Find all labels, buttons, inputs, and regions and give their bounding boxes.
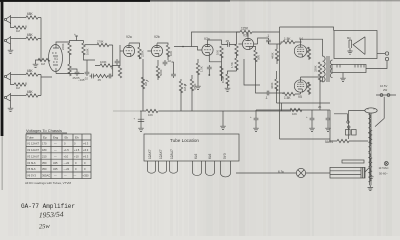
svg-text:+10: +10: [64, 154, 69, 158]
cap C6 .05: [226, 42, 232, 47]
svg-text:210: 210: [42, 154, 47, 158]
resistor R20 470K: [220, 46, 223, 58]
ext speaker jack: [377, 53, 385, 55]
tube V2b: [151, 45, 162, 56]
svg-text:—: —: [64, 175, 67, 178]
svg-text:Esg: Esg: [53, 136, 59, 140]
svg-text:Tube Location: Tube Location: [170, 138, 199, 143]
fuse and switch top: [376, 94, 396, 96]
svg-text:100K: 100K: [86, 48, 90, 55]
svg-text:V5 6L6: V5 6L6: [27, 167, 36, 171]
wire plate to coupling: [84, 53, 96, 70]
ground mid: [222, 111, 224, 124]
socket 6 rectifier: [221, 161, 231, 177]
fuse F1 holder: [346, 130, 351, 136]
resistor R24 8.2K: [226, 74, 229, 86]
svg-text:12AX7: 12AX7: [148, 149, 152, 159]
svg-text:350: 350: [42, 167, 47, 171]
resistor R6 1M: [14, 83, 26, 86]
svg-text:GA-77 Amplifier: GA-77 Amplifier: [21, 203, 75, 210]
svg-text:68K: 68K: [27, 33, 34, 37]
wire J4 to R5: [11, 95, 27, 97]
mains switch SW1: [347, 121, 349, 123]
svg-text:12AX7: 12AX7: [159, 149, 163, 159]
svg-text:V1: V1: [54, 57, 58, 61]
resistor R13 1.5K vertical: [118, 66, 121, 78]
ground under transformer: [368, 185, 374, 190]
tube V3b: [242, 38, 253, 49]
tube location box: [144, 134, 239, 161]
svg-text:Tube: Tube: [27, 136, 34, 140]
resistor R2 68K: [26, 37, 38, 40]
svg-text:1M: 1M: [41, 62, 46, 66]
pilot lamp PL1: [296, 168, 305, 177]
svg-text:345: 345: [53, 161, 58, 165]
svg-text:115K: 115K: [241, 27, 249, 31]
socket 2: [159, 161, 167, 173]
resistor R3 1M: [14, 26, 26, 29]
heater wires: [236, 172, 330, 174]
power transformer T2 heater secondary: [370, 158, 372, 176]
svg-text:68K: 68K: [27, 69, 34, 73]
cathode cap C1 25/25: [75, 70, 80, 76]
node C junction to driver: [172, 47, 192, 73]
svg-text:+1.5: +1.5: [64, 148, 70, 152]
transformer bottom box: [330, 167, 365, 178]
wire C8 to grid bus: [269, 43, 278, 45]
svg-text:440K: 440K: [271, 52, 275, 59]
speaker voice coil: [349, 40, 352, 48]
wire J3 to R4: [11, 74, 27, 76]
svg-text:+6.3: +6.3: [83, 154, 89, 158]
wire jack bus: [11, 23, 27, 28]
bottom box ground: [365, 168, 369, 172]
resistor R22 115K on rail: [240, 30, 252, 33]
svg-text:.02: .02: [167, 59, 171, 63]
svg-text:5AR4: 5AR4: [325, 140, 333, 144]
resistor R26 440K grid top: [275, 49, 278, 61]
svg-text:+6.3: +6.3: [83, 142, 89, 146]
cathode V2a down: [131, 53, 143, 84]
aux line: [279, 102, 281, 104]
svg-text:.05: .05: [225, 39, 229, 43]
power transformer T2 core stem: [370, 113, 371, 186]
resistor R33 10K on bus: [146, 109, 158, 112]
svg-text:.1: .1: [265, 96, 268, 100]
svg-text:—: —: [54, 143, 57, 146]
cap C3 .02: [115, 59, 120, 65]
svg-text:V2a: V2a: [126, 35, 132, 39]
svg-text:8Ω: 8Ω: [347, 36, 351, 40]
svg-text:—22: —22: [64, 161, 70, 165]
resistor R27 440K grid bottom: [275, 79, 278, 91]
svg-text:Eh: Eh: [75, 136, 79, 140]
svg-text:—: —: [74, 175, 77, 178]
tone pot R18 1M-A: [179, 81, 182, 93]
tube V3a: [202, 44, 213, 55]
B+ rail node: [70, 36, 84, 44]
resistor R30 1.5K grid stopper bottom: [283, 92, 295, 95]
filter cap C11: [254, 116, 259, 122]
svg-text:50-60~: 50-60~: [379, 172, 388, 176]
socket 4: [193, 161, 202, 176]
svg-text:1M: 1M: [16, 86, 21, 90]
svg-text:—22: —22: [64, 167, 70, 171]
cathode resistor R10: [56, 53, 70, 74]
svg-text:+1.5: +1.5: [74, 148, 80, 152]
svg-text:V6 5Y3: V6 5Y3: [27, 174, 36, 178]
output transformer T1 core: [327, 56, 329, 82]
screen resistor R29: [307, 47, 310, 59]
svg-text:6.3v: 6.3v: [278, 170, 284, 174]
svg-text:1.5K: 1.5K: [284, 96, 291, 100]
ground under terminal strip: [342, 73, 344, 77]
screen resistor R31: [307, 82, 310, 94]
svg-text:1M: 1M: [144, 81, 148, 86]
coupling cap C8 .1 top: [266, 38, 271, 44]
coupling cap C9 .1 bottom: [265, 91, 271, 96]
wire J2 to R2: [11, 38, 27, 40]
svg-text:10K: 10K: [216, 50, 220, 55]
svg-text:Ep: Ep: [43, 136, 47, 140]
socket 5: [206, 161, 215, 176]
tube V5 6L6: [294, 80, 306, 93]
jack J1: [4, 15, 10, 24]
svg-text:V2 12AX7: V2 12AX7: [27, 148, 40, 152]
svg-text:2K: 2K: [318, 105, 322, 109]
svg-text:.05: .05: [97, 78, 101, 82]
wire J1 to R1: [11, 17, 27, 19]
resistor R20b 470K: [235, 44, 238, 56]
table rows: [27, 142, 89, 178]
svg-text:V3 12AU7: V3 12AU7: [27, 154, 40, 158]
tube V4 6L6: [294, 45, 306, 58]
svg-text:+: +: [74, 33, 76, 37]
cap C4 .02 coupling: [163, 60, 168, 66]
svg-text:365AC: 365AC: [42, 174, 50, 178]
resistor R19 470K: [190, 79, 193, 91]
svg-text:330K: 330K: [314, 65, 318, 72]
svg-text:180: 180: [42, 148, 47, 152]
svg-text:56K: 56K: [257, 55, 261, 60]
table grid: [26, 134, 91, 179]
resistor R5 68K: [26, 94, 38, 97]
svg-text:6L6: 6L6: [208, 153, 212, 159]
svg-text:10K: 10K: [148, 113, 153, 117]
speaker SP cone: [353, 37, 365, 55]
svg-text:—: —: [54, 175, 57, 178]
svg-text:V2b: V2b: [154, 35, 160, 39]
resistor R21b 1.5K: [196, 63, 199, 75]
wire V1 plate top: [56, 42, 69, 45]
svg-text:1.5K: 1.5K: [230, 62, 234, 68]
svg-text:1M-A: 1M-A: [183, 84, 187, 91]
svg-text:+10: +10: [74, 154, 79, 158]
svg-text:—: —: [54, 149, 57, 152]
node B wire to V1 grid lower: [38, 75, 52, 96]
svg-text:1953/54: 1953/54: [39, 210, 64, 220]
svg-text:170: 170: [42, 142, 47, 146]
svg-text:5Y3: 5Y3: [223, 153, 227, 159]
svg-text:270K: 270K: [97, 40, 104, 44]
cathode resistor R23 1.5K: [235, 58, 238, 70]
svg-text:.1: .1: [267, 34, 270, 38]
resistor R1 68K: [26, 16, 38, 19]
svg-text:100K: 100K: [100, 60, 107, 64]
cathode rail + ground: [56, 69, 84, 74]
B+ rail: [280, 110, 331, 139]
filter cap C12: [310, 116, 315, 122]
svg-text:8.2K: 8.2K: [221, 77, 225, 83]
svg-text:-.045: -.045: [78, 78, 85, 82]
svg-text:V1 12AX7: V1 12AX7: [27, 142, 40, 146]
svg-text:V3a: V3a: [204, 37, 210, 41]
resistor R9 1M plate load 2: [82, 43, 85, 55]
jack J4: [4, 93, 10, 102]
ground drop: [138, 111, 144, 126]
mains plug: [384, 162, 388, 166]
feedback resistor R32 330K chain: [318, 62, 321, 74]
svg-text:68K: 68K: [27, 90, 34, 94]
svg-text:Ek: Ek: [65, 136, 69, 140]
ground at R7: [36, 60, 39, 62]
tube V1 12AX7: [49, 45, 63, 72]
speaker magnet ground: [347, 48, 352, 54]
resistor R12 100K: [100, 64, 112, 67]
top rail to speaker: [280, 27, 334, 31]
ground bus wire: [113, 110, 140, 112]
svg-text:500K: 500K: [159, 69, 163, 76]
svg-text:117VAC: 117VAC: [379, 166, 389, 170]
svg-text:V4 6L6: V4 6L6: [27, 161, 36, 165]
resistor R12c tone: [96, 74, 108, 77]
resistor R17 10K plate V2b: [166, 45, 169, 57]
table header: [27, 136, 79, 140]
svg-text:+6.3: +6.3: [83, 148, 89, 152]
jack J3: [4, 72, 10, 81]
power transformer T2 primary winding lower: [368, 133, 370, 182]
long vertical bus at x=279.5: [279, 27, 281, 139]
svg-text:V5: V5: [298, 95, 302, 99]
wire R1 to node A: [38, 17, 41, 19]
svg-text:.02: .02: [84, 77, 88, 81]
ground under J2: [10, 45, 12, 48]
resistor R8 220K plate load: [68, 43, 71, 55]
speaker box: [334, 31, 377, 59]
output transformer T1 primary: [323, 56, 326, 82]
svg-text:220K: 220K: [61, 43, 65, 50]
svg-text:440K: 440K: [270, 82, 274, 89]
power transformer T2 HV secondary: [370, 131, 372, 144]
svg-text:12AU7: 12AU7: [170, 149, 174, 159]
svg-text:—: —: [54, 155, 57, 158]
wire up to output rail: [192, 32, 241, 50]
cap C3c: [107, 74, 113, 79]
svg-text:345: 345: [53, 167, 58, 171]
svg-text:1.5K: 1.5K: [284, 37, 291, 41]
cap C5: [171, 72, 176, 78]
socket 1: [148, 161, 156, 173]
rectifier tube V6: [365, 108, 377, 113]
svg-text:10K: 10K: [169, 51, 173, 56]
svg-text:+350: +350: [83, 174, 90, 178]
svg-text:.02: .02: [110, 66, 114, 70]
svg-text:470K: 470K: [193, 83, 197, 90]
switch lever to fuse line: [375, 97, 384, 127]
output transformer T1 secondary: [330, 60, 332, 78]
svg-text:Voltages To Chassis: Voltages To Chassis: [26, 128, 62, 133]
jack J2: [4, 36, 10, 45]
wire jack bus 2: [11, 81, 27, 85]
transformer terminal plate: [342, 160, 364, 163]
resistor R28 1.5K grid stopper top: [283, 40, 295, 43]
socket 3: [170, 161, 178, 173]
svg-text:All DC readings with Tubes, VT: All DC readings with Tubes, VTVM: [25, 181, 72, 185]
wire plates to OT: [301, 42, 302, 77]
filter cap C13: [326, 116, 331, 122]
svg-text:2W: 2W: [383, 88, 388, 92]
svg-text:1M: 1M: [16, 29, 21, 33]
tube V2a: [123, 45, 134, 56]
resistor R14 220K plate V2a: [138, 47, 141, 59]
resistor R11 270K: [85, 44, 98, 46]
power transformer T2 primary winding upper: [368, 114, 370, 132]
terminal strip TS1: [332, 65, 366, 73]
resistor R7 1M grid: [38, 58, 50, 61]
svg-text:68K: 68K: [27, 12, 34, 16]
resistor R21: [220, 66, 223, 78]
coupling cap C2 .02: [85, 70, 90, 76]
resistor R4 68K: [26, 73, 38, 76]
svg-text:25w: 25w: [39, 223, 51, 231]
ground under J4: [10, 102, 12, 106]
volume pot R15: [141, 77, 144, 89]
cathode V3a: [209, 56, 221, 81]
tremolo cap C7: [207, 65, 212, 71]
svg-text:220K: 220K: [141, 50, 145, 57]
node A wire to V1 grid: [38, 18, 41, 61]
svg-text:10K: 10K: [292, 112, 297, 116]
svg-text:350: 350: [42, 161, 47, 165]
svg-text:6L6: 6L6: [194, 153, 198, 159]
resistor R16 500K: [156, 66, 159, 78]
resistor R25 56K: [254, 50, 257, 62]
svg-text:1.5K: 1.5K: [200, 66, 204, 72]
resistor R34 10K: [290, 108, 302, 111]
cap C3b: [90, 74, 96, 79]
